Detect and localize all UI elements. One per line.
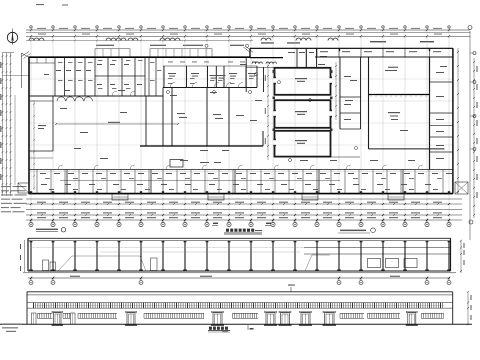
top-right room band xyxy=(288,48,453,68)
bottom-left annotation marks xyxy=(2,324,22,332)
top-left tiny annotations xyxy=(36,4,68,6)
plan outer wall left xyxy=(28,57,30,194)
north arrow symbol xyxy=(7,29,17,45)
elevation title text xyxy=(208,327,230,333)
elevation ribbon window band xyxy=(27,303,453,309)
section left level chain xyxy=(20,240,25,272)
section columns xyxy=(29,241,451,271)
door swing arcs top corridor xyxy=(57,97,92,101)
top-left closet row xyxy=(29,57,55,63)
plan bottom wall xyxy=(29,193,453,195)
window arc symbols below dim lines xyxy=(29,38,338,41)
section left equipment outlines xyxy=(30,248,330,272)
bottom room band xyxy=(29,170,453,194)
door number circles xyxy=(167,91,358,162)
additional fine text texture bottom band xyxy=(45,177,442,180)
scattered plan annotation text xyxy=(60,64,447,161)
bottom grid bubbles xyxy=(29,220,451,227)
canopy detail rects above top wall xyxy=(95,49,212,57)
top dimension line 2 xyxy=(26,33,470,35)
plan top wall right part xyxy=(250,47,453,49)
bottom wall column piers xyxy=(30,191,450,194)
mid hall partition walls xyxy=(140,88,263,147)
bottom band extra texture xyxy=(29,172,453,190)
additional fine text texture top band xyxy=(58,60,254,89)
interior dimension chain right of clean rooms xyxy=(335,62,337,120)
interior dimension chain left hall xyxy=(33,100,35,190)
top dimension line 1 xyxy=(26,28,470,31)
section labels above xyxy=(36,228,375,233)
right dimension chains xyxy=(457,26,478,241)
door swing arcs bottom band xyxy=(58,165,423,170)
entrance porches below south wall xyxy=(112,194,404,200)
bottom dimension lines xyxy=(26,199,462,221)
section end walls xyxy=(28,238,451,271)
center clean room 3 xyxy=(275,131,331,157)
top-left room band partitions xyxy=(29,57,163,96)
plan title text xyxy=(224,229,262,235)
top dimension line 4 partial xyxy=(26,40,253,42)
interior dimension chain left of clean rooms xyxy=(265,62,269,160)
elevation parapet lines xyxy=(27,292,453,325)
right room column partitions xyxy=(430,72,453,159)
left hall walls xyxy=(29,96,53,158)
elevation doors xyxy=(52,311,418,326)
elevation right level marks xyxy=(467,291,472,326)
section right windows xyxy=(368,259,418,268)
elevation ground line xyxy=(0,323,472,325)
section dimension line and bubbles xyxy=(28,276,451,285)
top leader annotations xyxy=(96,41,434,47)
southwest ramp xyxy=(18,183,29,193)
elevation lower window strips xyxy=(38,313,444,318)
corridor line right of room 3 xyxy=(331,156,361,158)
center room labels and door jambs xyxy=(273,70,333,146)
right side row grid bubbles xyxy=(470,52,476,151)
hall interior dimension leader xyxy=(55,122,179,125)
section floor line xyxy=(23,271,456,273)
rooms x283-316 xyxy=(283,48,327,68)
small room below wall y146 xyxy=(170,160,221,168)
section cut marks at dim band xyxy=(212,223,271,226)
section roof double line xyxy=(28,238,451,240)
plan top step at axis xyxy=(249,48,251,57)
elevation axis mark above parapet xyxy=(288,285,295,293)
top column grid bubbles xyxy=(30,26,451,29)
top dimension line 3 xyxy=(26,35,470,37)
entry lobby rooms x246-283 xyxy=(246,58,283,92)
section right level marks xyxy=(460,240,465,273)
plan row grid lines xyxy=(29,79,453,145)
plan column grid lines xyxy=(31,28,449,222)
right-center room column x340-360 xyxy=(340,57,361,129)
plan northwest corner break lines xyxy=(3,52,31,89)
elevation small section flag xyxy=(248,325,254,330)
section right crane beam lines xyxy=(304,248,450,255)
plan step corner diagonals near axis xyxy=(244,47,254,53)
left notes text block xyxy=(1,186,27,212)
southeast ramp xyxy=(455,182,468,194)
center clean room 2 xyxy=(275,100,331,128)
plan right wall xyxy=(452,48,454,193)
top-middle rooms xyxy=(163,62,257,88)
tick row below wall y94.5 xyxy=(371,95,426,98)
center clean room 1 xyxy=(275,68,331,95)
left dimension chains xyxy=(0,53,15,197)
plan top wall left part xyxy=(29,56,251,58)
right big room walls xyxy=(369,57,445,170)
elevation small door frames xyxy=(32,313,76,324)
